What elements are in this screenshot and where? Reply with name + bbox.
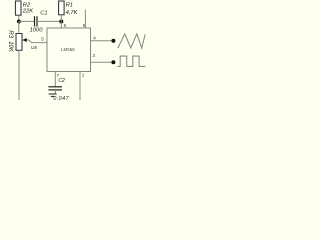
resistor R2 (15, 1, 21, 15)
potentiometer R3 (16, 34, 22, 51)
svg-text:4: 4 (93, 36, 96, 42)
svg-text:LM566: LM566 (61, 47, 75, 52)
wire R2 bottom lead (18, 15, 20, 21)
wire node A to C1 (19, 20, 34, 22)
svg-text:C1: C1 (40, 11, 47, 17)
svg-text:10K: 10K (7, 41, 13, 53)
wire C2 to ground (54, 90, 56, 94)
wire R3 bottom lead down (18, 50, 20, 100)
svg-text:4,7K: 4,7K (66, 10, 79, 16)
square wave symbol (117, 56, 145, 66)
wire wiper to pin 5 (27, 40, 47, 43)
capacitor C2 (48, 87, 62, 90)
op-amp U5 IC box LM566 (47, 28, 91, 72)
wire C1 to node B (37, 20, 61, 22)
svg-text:3: 3 (92, 53, 95, 59)
svg-text:U5: U5 (31, 45, 37, 50)
wire pin 7 stub (54, 72, 56, 87)
wire pin 1 down (79, 72, 81, 101)
svg-text:1: 1 (82, 73, 85, 79)
svg-text:5: 5 (41, 37, 44, 43)
wire node B to pin 6 (60, 21, 62, 28)
node junction dot B (59, 20, 63, 24)
wire R1 bottom lead (60, 15, 62, 22)
ground (49, 94, 57, 96)
wire V+ to pin 8 (84, 10, 86, 29)
svg-text:22K: 22K (22, 9, 34, 15)
capacitor C1 (35, 16, 38, 26)
wiper arrow of R3 (22, 38, 27, 42)
background (0, 0, 150, 100)
node output dot pin 4 (111, 39, 115, 43)
wire node A to R3 top (18, 21, 20, 33)
node junction dot A (17, 20, 21, 24)
node output dot pin 3 (111, 60, 115, 64)
svg-text:R3: R3 (7, 30, 13, 38)
triangle wave symbol (118, 34, 145, 48)
svg-text:1000: 1000 (30, 27, 44, 33)
svg-text:0,047: 0,047 (53, 96, 69, 100)
svg-text:R1: R1 (66, 3, 73, 9)
svg-text:C2: C2 (58, 78, 65, 84)
wire pin 4 output (91, 40, 114, 42)
resistor R1 (59, 1, 65, 15)
wire pin 3 output (91, 61, 114, 63)
